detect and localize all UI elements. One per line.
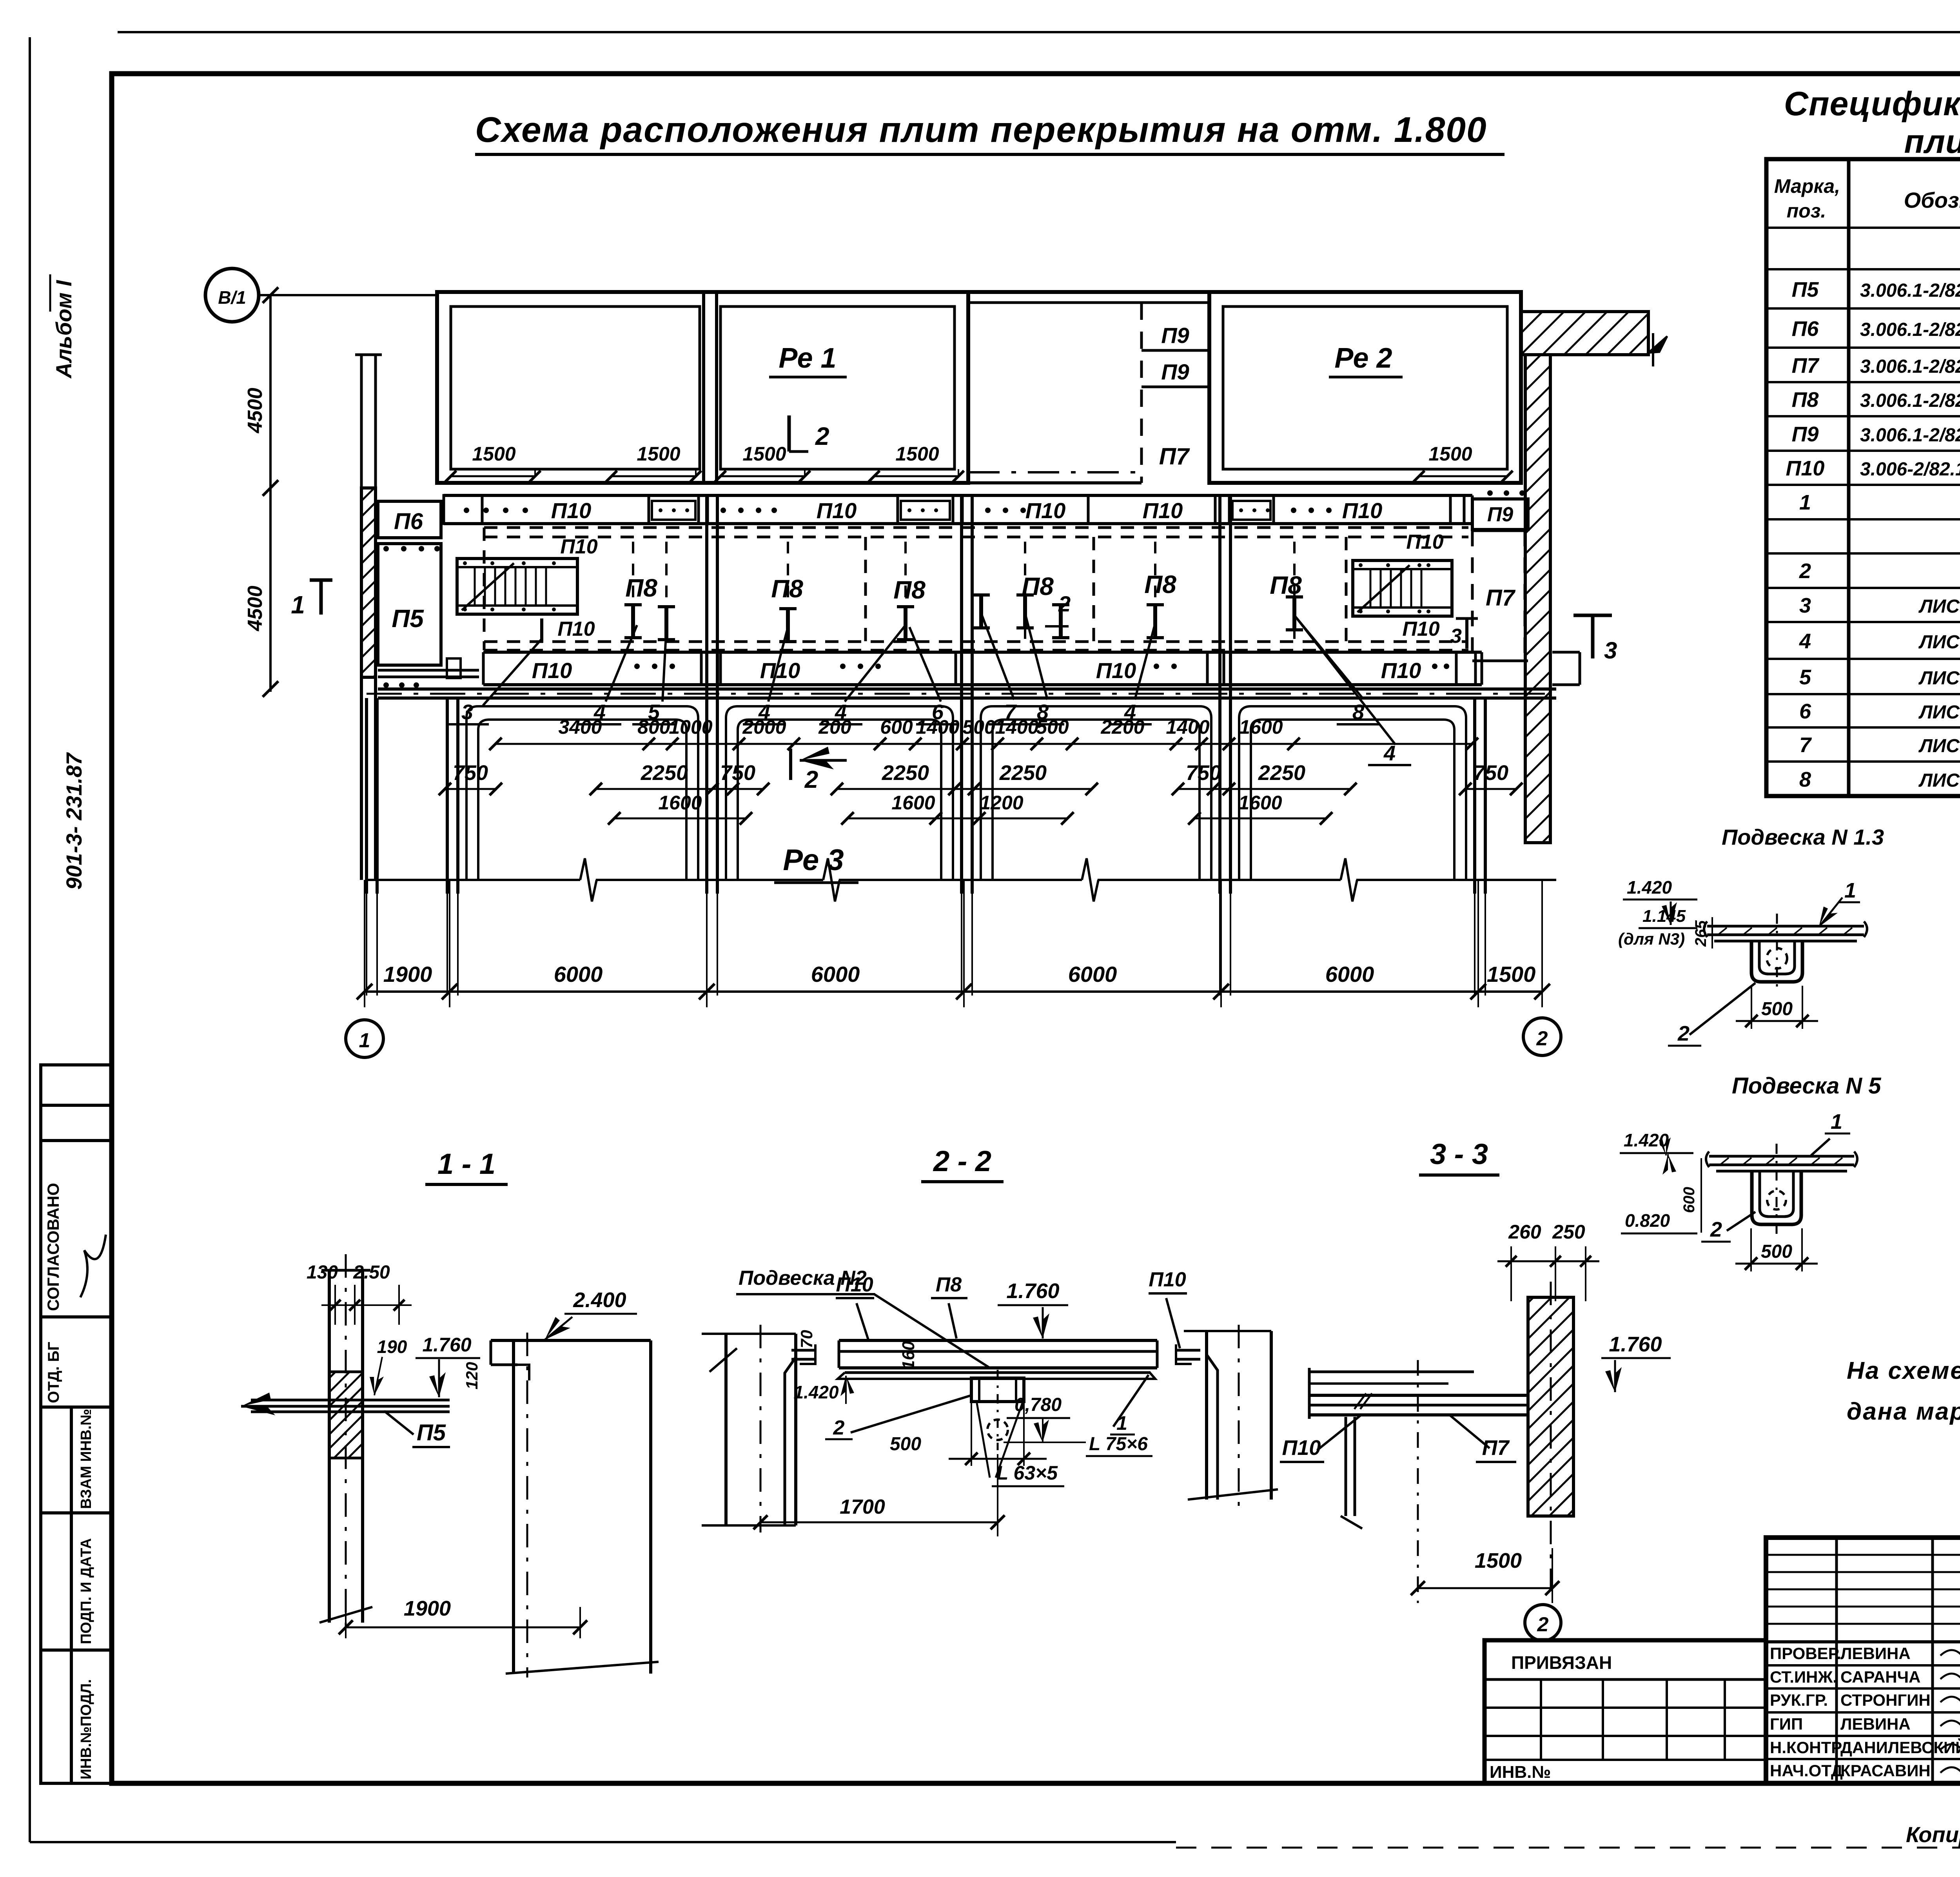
svg-text:ГИП: ГИП — [1770, 1715, 1803, 1733]
svg-text:1500: 1500 — [742, 443, 786, 465]
svg-text:1500: 1500 — [472, 443, 515, 465]
svg-text:1500: 1500 — [895, 443, 939, 465]
svg-text:П10: П10 — [1381, 658, 1421, 683]
svg-text:500: 500 — [1036, 716, 1069, 738]
svg-text:П10: П10 — [1149, 1268, 1186, 1291]
svg-text:НАЧ.ОТД: НАЧ.ОТД — [1770, 1761, 1843, 1780]
svg-text:Обозначение: Обозначение — [1904, 188, 1960, 212]
svg-text:901-3- 231.87: 901-3- 231.87 — [62, 752, 86, 890]
svg-text:РУК.ГР.: РУК.ГР. — [1770, 1691, 1828, 1709]
svg-text:1 - 1: 1 - 1 — [437, 1148, 495, 1180]
svg-text:Подвеска N 1.3: Подвеска N 1.3 — [1722, 825, 1884, 849]
svg-text:1: 1 — [1831, 1110, 1842, 1133]
svg-text:ВЗАМ ИНВ.№: ВЗАМ ИНВ.№ — [78, 1409, 94, 1509]
svg-text:750: 750 — [1186, 761, 1221, 785]
svg-text:500: 500 — [962, 716, 995, 738]
svg-text:3.006.1-2/821-2-2.0-37: 3.006.1-2/821-2-2.0-37 — [1860, 280, 1960, 301]
svg-text:200: 200 — [818, 716, 851, 738]
svg-text:ЛИСТ КЖ-17: ЛИСТ КЖ-17 — [1918, 632, 1960, 653]
svg-text:П9: П9 — [1161, 359, 1189, 384]
svg-text:Спецификация к схемам распо: Спецификация к схемам расположения — [1784, 85, 1960, 123]
svg-text:1700: 1700 — [840, 1496, 885, 1518]
svg-text:В/1: В/1 — [218, 287, 246, 308]
svg-text:600: 600 — [1681, 1187, 1698, 1213]
svg-text:П10: П10 — [551, 498, 592, 523]
svg-text:2: 2 — [1799, 559, 1811, 583]
svg-text:ОТД. БГ: ОТД. БГ — [45, 1342, 62, 1403]
svg-text:СОГЛАСОВАНО: СОГЛАСОВАНО — [44, 1183, 62, 1311]
svg-text:1600: 1600 — [1238, 792, 1282, 814]
svg-text:КРАСАВИН: КРАСАВИН — [1840, 1761, 1931, 1780]
svg-text:Н.КОНТР.: Н.КОНТР. — [1770, 1738, 1844, 1757]
svg-text:П8: П8 — [1270, 571, 1302, 599]
svg-text:750: 750 — [453, 761, 488, 785]
svg-text:ПРОВЕР.: ПРОВЕР. — [1770, 1644, 1841, 1663]
svg-text:250: 250 — [1552, 1221, 1585, 1243]
svg-text:ЛИСТ КЖ-17: ЛИСТ КЖ-17 — [1918, 596, 1960, 617]
svg-text:ЛИСТ КЖ-17: ЛИСТ КЖ-17 — [1918, 702, 1960, 723]
svg-text:Ре 1: Ре 1 — [779, 343, 836, 374]
svg-text:2250: 2250 — [882, 761, 929, 785]
svg-text:Схема расположения плит пер: Схема расположения плит перекрытия на от… — [475, 110, 1487, 150]
svg-text:П10: П10 — [836, 1273, 873, 1296]
svg-text:3: 3 — [461, 700, 473, 724]
svg-text:П8: П8 — [625, 574, 657, 602]
svg-text:ЛИСТ КЖ-17: ЛИСТ КЖ-17 — [1918, 770, 1960, 791]
svg-text:П8: П8 — [1792, 388, 1819, 412]
svg-text:750: 750 — [1473, 761, 1508, 785]
svg-text:П7: П7 — [1486, 585, 1516, 611]
svg-text:П10: П10 — [1402, 618, 1439, 640]
svg-text:2: 2 — [1536, 1027, 1548, 1050]
svg-text:1.420: 1.420 — [793, 1382, 839, 1402]
svg-text:1.760: 1.760 — [1609, 1333, 1662, 1356]
svg-text:1500: 1500 — [637, 443, 680, 465]
svg-text:П10: П10 — [1143, 498, 1183, 523]
svg-text:Ре 2: Ре 2 — [1334, 343, 1392, 374]
svg-text:190: 190 — [377, 1337, 407, 1357]
svg-text:Копировал: Боброва: Копировал: Боброва — [1906, 1822, 1960, 1847]
svg-text:П10: П10 — [1282, 1436, 1321, 1460]
svg-text:4500: 4500 — [244, 388, 267, 433]
svg-text:2200: 2200 — [1100, 716, 1144, 738]
svg-text:120: 120 — [463, 1362, 481, 1389]
svg-text:2250: 2250 — [999, 761, 1047, 785]
svg-text:ЛЕВИНА: ЛЕВИНА — [1840, 1715, 1911, 1733]
svg-text:ЛИСТ КЖ-17: ЛИСТ КЖ-17 — [1918, 736, 1960, 756]
svg-text:2: 2 — [815, 422, 829, 450]
svg-text:2.400: 2.400 — [573, 1288, 626, 1312]
svg-text:3.006.1-2/82.1-2-1.0-036: 3.006.1-2/82.1-2-1.0-036 — [1860, 425, 1960, 446]
svg-text:2: 2 — [1537, 1613, 1549, 1636]
svg-text:П10: П10 — [1025, 498, 1066, 523]
svg-text:поз.: поз. — [1787, 200, 1826, 222]
svg-text:130: 130 — [307, 1262, 338, 1283]
svg-text:1600: 1600 — [1239, 716, 1283, 738]
svg-text:СТ.ИНЖ.: СТ.ИНЖ. — [1770, 1668, 1837, 1686]
svg-text:2: 2 — [1058, 591, 1071, 616]
svg-text:САРАНЧА: САРАНЧА — [1840, 1668, 1920, 1686]
svg-text:1400: 1400 — [916, 716, 959, 738]
svg-text:ЛИСТ КЖ-17: ЛИСТ КЖ-17 — [1918, 668, 1960, 689]
svg-text:6000: 6000 — [1068, 962, 1117, 987]
svg-text:П8: П8 — [1144, 570, 1176, 598]
svg-text:плит перекрытия: плит перекрытия — [1904, 123, 1960, 160]
svg-text:Марка,: Марка, — [1774, 175, 1840, 197]
svg-text:3: 3 — [1604, 637, 1617, 664]
svg-text:П7: П7 — [1159, 443, 1190, 470]
svg-text:1: 1 — [291, 591, 305, 619]
svg-text:260: 260 — [1508, 1221, 1541, 1243]
svg-text:Ре 3: Ре 3 — [783, 843, 844, 877]
svg-text:2250: 2250 — [1258, 761, 1305, 785]
svg-text:2.50: 2.50 — [353, 1262, 390, 1283]
svg-text:П10: П10 — [557, 618, 595, 640]
svg-text:1: 1 — [359, 1029, 370, 1052]
svg-text:1500: 1500 — [1487, 962, 1536, 987]
svg-text:П10: П10 — [1342, 498, 1383, 523]
svg-text:2: 2 — [804, 766, 818, 793]
svg-text:1.145: 1.145 — [1642, 907, 1686, 926]
svg-text:500: 500 — [1761, 1241, 1792, 1262]
svg-text:8: 8 — [1799, 768, 1811, 791]
svg-text:3.006.1-2/82.1-2-1.0-053: 3.006.1-2/82.1-2-1.0-053 — [1860, 319, 1960, 340]
svg-text:(для N3): (для N3) — [1618, 930, 1685, 948]
svg-text:3400: 3400 — [558, 716, 602, 738]
svg-text:ИНВ.№: ИНВ.№ — [1490, 1763, 1551, 1782]
svg-text:7: 7 — [1799, 733, 1812, 757]
svg-text:500: 500 — [1761, 999, 1793, 1019]
svg-text:1400: 1400 — [1166, 716, 1209, 738]
svg-text:П9: П9 — [1792, 423, 1819, 446]
svg-text:П6: П6 — [1792, 317, 1819, 341]
svg-text:1.760: 1.760 — [1006, 1279, 1059, 1303]
svg-text:П8: П8 — [771, 575, 803, 603]
svg-text:2250: 2250 — [641, 761, 688, 785]
svg-text:6000: 6000 — [554, 962, 603, 987]
svg-text:1500: 1500 — [1475, 1549, 1522, 1572]
svg-text:П6: П6 — [394, 509, 423, 534]
svg-text:600: 600 — [880, 716, 913, 738]
svg-text:1500: 1500 — [1428, 443, 1472, 465]
svg-text:3 - 3: 3 - 3 — [1430, 1138, 1488, 1170]
svg-text:4: 4 — [1383, 742, 1396, 765]
svg-text:3.006-2/82.1-2-2.0-05: 3.006-2/82.1-2-2.0-05 — [1860, 459, 1960, 480]
svg-text:3.006.1-2/82.1-2-2.0-20: 3.006.1-2/82.1-2-2.0-20 — [1860, 356, 1960, 377]
svg-text:2: 2 — [1677, 1022, 1690, 1045]
svg-text:L 63×5: L 63×5 — [996, 1462, 1058, 1484]
svg-text:6: 6 — [1799, 700, 1811, 723]
svg-text:П10: П10 — [1786, 457, 1825, 480]
svg-text:2 - 2: 2 - 2 — [933, 1145, 991, 1177]
svg-text:L 75×6: L 75×6 — [1089, 1434, 1148, 1454]
svg-text:П10: П10 — [1096, 658, 1136, 683]
svg-text:ПРИВЯЗАН: ПРИВЯЗАН — [1511, 1652, 1612, 1673]
svg-text:П10: П10 — [760, 658, 800, 683]
svg-text:800: 800 — [637, 716, 670, 738]
svg-text:6000: 6000 — [811, 962, 860, 987]
svg-text:1200: 1200 — [980, 792, 1023, 814]
svg-text:1600: 1600 — [891, 792, 935, 814]
svg-text:500: 500 — [890, 1434, 921, 1454]
svg-text:4500: 4500 — [244, 586, 267, 631]
svg-text:6000: 6000 — [1325, 962, 1374, 987]
svg-text:1.760: 1.760 — [422, 1334, 471, 1356]
svg-text:0.820: 0.820 — [1625, 1210, 1670, 1231]
svg-text:П5: П5 — [392, 604, 424, 633]
svg-text:СТРОНГИН: СТРОНГИН — [1840, 1691, 1931, 1709]
svg-text:5: 5 — [1799, 666, 1811, 689]
svg-text:П10: П10 — [532, 658, 572, 683]
svg-text:3.006.1-2/82.1-2-2.0-61: 3.006.1-2/82.1-2-2.0-61 — [1860, 390, 1960, 411]
svg-text:ИНВ.№ПОДЛ.: ИНВ.№ПОДЛ. — [78, 1679, 94, 1779]
svg-text:1400: 1400 — [995, 716, 1038, 738]
svg-text:Альбом I: Альбом I — [51, 280, 76, 379]
svg-text:П10: П10 — [1406, 531, 1443, 553]
svg-text:1600: 1600 — [658, 792, 702, 814]
svg-text:4: 4 — [1799, 629, 1811, 653]
svg-text:На схеме расположения плит: На схеме расположения плит перекрытия — [1847, 1357, 1960, 1384]
svg-text:П10: П10 — [817, 498, 857, 523]
svg-text:ЛЕВИНА: ЛЕВИНА — [1840, 1644, 1911, 1663]
svg-text:1: 1 — [1799, 491, 1811, 514]
svg-text:П8: П8 — [893, 576, 926, 604]
svg-text:ПОДП. И ДАТА: ПОДП. И ДАТА — [78, 1538, 94, 1644]
svg-text:2000: 2000 — [742, 716, 786, 738]
svg-text:2: 2 — [1710, 1218, 1722, 1241]
svg-text:160: 160 — [899, 1341, 918, 1370]
svg-text:П10: П10 — [560, 535, 597, 558]
svg-text:3: 3 — [1450, 625, 1462, 647]
svg-text:70: 70 — [797, 1330, 816, 1348]
svg-text:П7: П7 — [1482, 1436, 1510, 1460]
svg-text:П8: П8 — [936, 1273, 962, 1296]
svg-text:1000: 1000 — [669, 716, 712, 738]
svg-text:П5: П5 — [417, 1420, 446, 1445]
svg-text:1900: 1900 — [383, 962, 432, 987]
svg-text:1900: 1900 — [404, 1597, 451, 1620]
svg-text:П7: П7 — [1792, 354, 1820, 377]
svg-text:П9: П9 — [1161, 323, 1189, 348]
svg-text:1.420: 1.420 — [1627, 877, 1672, 898]
svg-text:3: 3 — [1799, 594, 1811, 617]
svg-text:дана маркировка подвесок.: дана маркировка подвесок. — [1847, 1398, 1960, 1425]
svg-text:П5: П5 — [1792, 278, 1819, 301]
svg-text:265: 265 — [1692, 920, 1710, 947]
svg-text:1: 1 — [1844, 879, 1856, 902]
svg-text:750: 750 — [720, 761, 755, 785]
svg-text:2: 2 — [833, 1416, 845, 1439]
svg-text:Подвеска N 5: Подвеска N 5 — [1732, 1073, 1881, 1099]
svg-text:П9: П9 — [1487, 503, 1513, 526]
